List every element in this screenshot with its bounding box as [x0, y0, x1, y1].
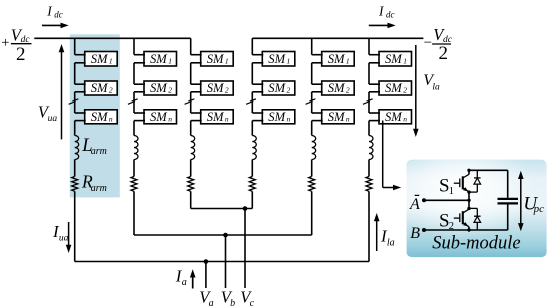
wire: arm upper a top connection	[74, 38, 76, 54]
svg-text:c: c	[250, 298, 255, 308]
submodule SM2 (arm lower b)	[322, 81, 355, 95]
label S2	[439, 210, 454, 232]
svg-text:SM: SM	[268, 81, 286, 95]
resistor Rarm (arm upper a)	[72, 177, 78, 192]
svg-text:n: n	[346, 114, 350, 123]
wire between SM2 and SMn	[190, 92, 192, 113]
svg-text:ua: ua	[59, 233, 69, 243]
submodule SM1 (arm lower b)	[322, 52, 355, 67]
svg-text:SM: SM	[328, 52, 346, 66]
label Rarm	[81, 172, 107, 195]
svg-text:pc: pc	[533, 203, 545, 215]
svg-text:n: n	[287, 114, 291, 123]
break marks: omitted modules (arm lower c)	[250, 99, 256, 101]
svg-text:SM: SM	[91, 81, 109, 95]
terminal B dot	[422, 228, 426, 232]
wire inductor to resistor	[368, 160, 370, 177]
current arrow Ila (up)	[376, 220, 378, 251]
wire stubs of SM1 (arm upper a)	[75, 54, 86, 56]
wire stubs of SMn (arm lower c)	[252, 112, 263, 114]
wire stubs of SMn (arm lower a)	[369, 112, 380, 114]
wire: arm lower b top connection	[311, 38, 313, 54]
fraction bar (-Vdc/2)	[432, 43, 451, 45]
svg-text:B: B	[410, 225, 420, 242]
svg-text:I: I	[378, 3, 385, 18]
svg-text:SM: SM	[385, 110, 403, 124]
svg-text:SM: SM	[150, 110, 168, 124]
wire stubs of SMn (arm upper b)	[134, 112, 145, 114]
submodule SM2 (arm upper c)	[201, 81, 234, 95]
resistor Rarm (arm lower b)	[309, 177, 315, 192]
diode D2	[469, 208, 481, 230]
svg-text:−: −	[424, 35, 432, 51]
svg-text:SM: SM	[91, 52, 109, 66]
inductor Larm (arm upper c)	[191, 136, 195, 160]
break marks: omitted modules (arm upper a)	[72, 99, 78, 101]
wire between SM2 and SMn	[74, 92, 76, 113]
wire inductor to resistor	[311, 160, 313, 177]
wire S2 emitter to bottom rail	[468, 227, 470, 230]
wire between SM1 and SM2	[311, 63, 313, 84]
phase c line	[191, 208, 253, 210]
break marks: omitted modules (arm upper b)	[132, 99, 138, 101]
label Vla	[423, 72, 440, 92]
svg-text:1: 1	[287, 57, 291, 66]
resistor Rarm (arm upper b)	[131, 177, 137, 192]
submodule SM1 (arm lower c)	[262, 52, 295, 67]
label +Vdc/2	[1, 25, 30, 65]
submodule SM2 (arm upper a)	[85, 81, 118, 95]
svg-text:2: 2	[287, 86, 291, 95]
terminal A dot	[422, 198, 426, 202]
label Idc (left)	[46, 3, 63, 19]
label S1	[439, 175, 454, 197]
wire: arm upper c top connection	[190, 38, 192, 54]
wire terminal A to midpoint	[424, 199, 469, 201]
submodule SM1 (arm upper c)	[201, 52, 234, 67]
highlighted phase-a upper arm region	[70, 34, 120, 197]
wire SMn to arm inductor	[311, 121, 313, 136]
svg-text:1: 1	[403, 57, 407, 66]
label B	[410, 225, 420, 242]
svg-text:n: n	[109, 114, 113, 123]
wire stubs of SMn (arm upper c)	[191, 112, 202, 114]
svg-text:arm: arm	[91, 146, 107, 157]
inductor Larm (arm upper a)	[75, 136, 79, 160]
wire rail to capacitor	[507, 170, 509, 198]
submodule SM2 (arm upper b)	[144, 81, 177, 95]
wire Va	[205, 262, 207, 289]
resistor Rarm (arm upper c)	[188, 177, 194, 192]
wire stubs of SM1 (arm upper c)	[191, 54, 202, 56]
label Iua	[52, 222, 69, 243]
phase b line	[134, 234, 312, 236]
wire: arm upper b to phase line	[133, 191, 135, 235]
IGBT S2	[454, 209, 469, 227]
wire between SM1 and SM2	[133, 63, 135, 84]
svg-text:1: 1	[225, 57, 229, 66]
wire bottom rail (terminal B)	[424, 229, 508, 231]
label Idc (right)	[378, 3, 395, 19]
wire stubs of SM1 (arm lower c)	[252, 54, 263, 56]
break marks: omitted modules (arm lower a)	[367, 99, 373, 101]
wire: arm lower a to phase line	[368, 191, 370, 261]
negative DC bus	[252, 37, 423, 39]
svg-text:n: n	[225, 114, 229, 123]
resistor Rarm (arm lower c)	[249, 177, 255, 192]
svg-text:SM: SM	[268, 110, 286, 124]
wire capacitor to bottom rail	[507, 205, 509, 231]
wire: arm lower a top connection	[368, 38, 370, 54]
svg-text:2: 2	[438, 43, 448, 64]
svg-text:2: 2	[225, 86, 229, 95]
label Sub-module	[432, 234, 520, 254]
wire midpoint (S1 emitter to S2 collector)	[468, 192, 470, 210]
svg-text:a: a	[209, 298, 214, 308]
wire between SM1 and SM2	[251, 63, 253, 84]
wire S1 collector to top rail	[468, 170, 470, 174]
label Vb	[221, 288, 235, 308]
svg-text:SM: SM	[150, 52, 168, 66]
submodule SMn (arm lower c)	[262, 110, 295, 124]
resistor Rarm (arm lower a)	[366, 177, 372, 192]
submodule SMn (arm lower a)	[379, 110, 412, 124]
submodule SM1 (arm upper a)	[85, 52, 118, 67]
svg-text:Sub-module: Sub-module	[432, 234, 520, 254]
wire between SM1 and SM2	[190, 63, 192, 84]
wire between SM1 and SM2	[74, 63, 76, 84]
svg-text:SM: SM	[385, 81, 403, 95]
label Vua	[38, 102, 57, 124]
current arrow Idc (right)	[369, 24, 389, 26]
wire stubs of SM2 (arm lower b)	[312, 83, 323, 85]
svg-text:1: 1	[346, 57, 350, 66]
wire inductor to resistor	[190, 160, 192, 177]
wire: arm upper c to phase line	[190, 191, 192, 208]
label A	[409, 196, 420, 213]
svg-text:SM: SM	[207, 52, 225, 66]
svg-text:SM: SM	[150, 81, 168, 95]
svg-text:n: n	[403, 114, 407, 123]
wire between SM2 and SMn	[368, 92, 370, 113]
wire SMn to arm inductor	[190, 121, 192, 136]
current arrow Iua (down)	[68, 222, 70, 246]
inductor Larm (arm lower b)	[312, 136, 316, 160]
svg-text:1: 1	[168, 57, 172, 66]
current arrow Ia	[192, 276, 194, 289]
svg-text:b: b	[230, 298, 235, 308]
submodule SMn (arm lower b)	[322, 110, 355, 124]
voltage arrow Vla (down)	[415, 45, 417, 130]
wire stubs of SMn (arm lower b)	[312, 112, 323, 114]
svg-text:a: a	[182, 277, 187, 288]
wire SMn to arm inductor	[133, 121, 135, 136]
svg-text:SM: SM	[91, 110, 109, 124]
svg-text:SM: SM	[328, 110, 346, 124]
label Upc	[523, 194, 544, 215]
submodule SM1 (arm upper b)	[144, 52, 177, 67]
svg-text:SM: SM	[385, 52, 403, 66]
IGBT S1	[454, 174, 469, 192]
wire stubs of SM2 (arm lower a)	[369, 83, 380, 85]
svg-text:ua: ua	[48, 114, 58, 124]
wire: arm lower c to phase line	[251, 191, 253, 208]
svg-text:2: 2	[16, 44, 26, 65]
svg-text:dc: dc	[386, 9, 395, 19]
overline of A	[415, 194, 420, 196]
svg-text:2: 2	[346, 86, 350, 95]
node: phase b tap	[223, 233, 228, 238]
fraction bar (+Vdc/2)	[11, 43, 32, 45]
capacitor Upc	[498, 198, 519, 200]
svg-text:la: la	[432, 82, 440, 92]
submodule SMn (arm upper a)	[85, 110, 118, 124]
wire SMn to arm inductor	[74, 121, 76, 136]
svg-text:n: n	[168, 114, 172, 123]
voltage arrow Vua (up)	[61, 51, 63, 140]
node: phase c tap	[243, 206, 248, 211]
submodule SMn (arm upper b)	[144, 110, 177, 124]
svg-text:2: 2	[403, 86, 407, 95]
inductor Larm (arm lower c)	[252, 136, 256, 160]
phase a line	[75, 261, 369, 263]
wire SMn to arm inductor	[251, 121, 253, 136]
break marks: omitted modules (arm upper c)	[188, 99, 194, 101]
label Vc	[240, 288, 254, 308]
wire inductor to resistor	[74, 160, 76, 177]
node dots on spine	[467, 190, 470, 193]
submodule SM1 (arm lower a)	[379, 52, 412, 67]
wire stubs of SM2 (arm lower c)	[252, 83, 263, 85]
label Larm	[81, 136, 107, 157]
wire: arm lower c top connection	[251, 38, 253, 54]
svg-text:I: I	[46, 3, 53, 18]
wire stubs of SM2 (arm upper b)	[134, 83, 145, 85]
wire stubs of SM1 (arm lower b)	[312, 54, 323, 56]
submodule SM2 (arm lower c)	[262, 81, 295, 95]
inductor Larm (arm lower a)	[369, 136, 373, 160]
wire stubs of SM1 (arm upper b)	[134, 54, 145, 56]
svg-text:la: la	[387, 238, 395, 249]
svg-text:1: 1	[449, 186, 454, 197]
wire: arm upper a to phase line	[74, 191, 76, 261]
wire between SM2 and SMn	[311, 92, 313, 113]
wire top rail	[469, 169, 508, 171]
svg-text:2: 2	[109, 86, 113, 95]
positive DC bus	[34, 37, 190, 39]
submodule SM2 (arm lower a)	[379, 81, 412, 95]
svg-text:+: +	[1, 35, 9, 51]
wire stubs of SM2 (arm upper a)	[75, 83, 86, 85]
callout arrow SMn to sub-module detail	[382, 121, 384, 188]
wire inductor to resistor	[251, 160, 253, 177]
svg-text:A: A	[409, 196, 420, 213]
wire stubs of SM1 (arm lower a)	[369, 54, 380, 56]
label -Vdc/2	[424, 25, 453, 64]
wire between SM2 and SMn	[251, 92, 253, 113]
voltage arrow Upc (double)	[520, 177, 522, 226]
svg-text:SM: SM	[207, 110, 225, 124]
wire SMn to arm inductor	[368, 121, 370, 136]
break marks: omitted modules (arm lower b)	[309, 99, 315, 101]
svg-text:SM: SM	[207, 81, 225, 95]
wire Vc	[244, 209, 246, 289]
sub-module inset panel background	[407, 160, 547, 258]
wire: arm upper b top connection	[133, 38, 135, 54]
submodule SMn (arm upper c)	[201, 110, 234, 124]
current arrow Idc (left)	[42, 24, 62, 26]
svg-text:dc: dc	[54, 9, 63, 19]
wire: arm lower b to phase line	[311, 191, 313, 235]
svg-text:SM: SM	[328, 81, 346, 95]
wire stubs of SM2 (arm upper c)	[191, 83, 202, 85]
wire inductor to resistor	[133, 160, 135, 177]
wire stubs of SMn (arm upper a)	[75, 112, 86, 114]
svg-text:arm: arm	[91, 183, 107, 194]
label Ia	[175, 267, 187, 289]
wire Vb	[225, 235, 227, 288]
node: phase a tap	[204, 259, 209, 264]
inductor Larm (arm upper b)	[134, 136, 138, 160]
svg-text:SM: SM	[268, 52, 286, 66]
wire between SM2 and SMn	[133, 92, 135, 113]
label Ila	[380, 227, 395, 249]
svg-text:2: 2	[168, 86, 172, 95]
diode D1	[469, 170, 481, 192]
wire between SM1 and SM2	[368, 63, 370, 84]
svg-text:1: 1	[109, 57, 113, 66]
label Va	[199, 288, 213, 308]
